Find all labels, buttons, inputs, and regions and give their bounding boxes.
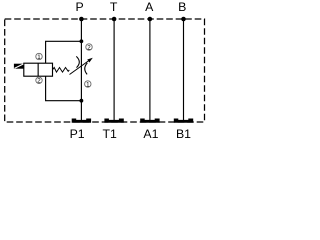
port P1 symbol bbox=[72, 119, 91, 123]
node loop bottom junction bbox=[80, 99, 84, 103]
svg-text:T: T bbox=[110, 0, 118, 14]
svg-text:2: 2 bbox=[37, 78, 41, 85]
pin 1 marker (valve top) bbox=[36, 53, 42, 61]
wire P line bbox=[80, 19, 82, 120]
throttle adjust arrow head bbox=[87, 58, 93, 63]
wire A line bbox=[149, 19, 151, 120]
svg-text:1: 1 bbox=[86, 81, 90, 88]
svg-text:T1: T1 bbox=[103, 127, 118, 138]
throttle adjust arrow shaft bbox=[70, 61, 89, 75]
throttle valve left arc bbox=[76, 56, 79, 67]
solenoid of valve V1 bbox=[14, 64, 24, 69]
port T1 symbol bbox=[104, 119, 123, 123]
svg-text:A1: A1 bbox=[143, 127, 158, 138]
svg-text:1: 1 bbox=[37, 54, 41, 61]
svg-text:2: 2 bbox=[87, 44, 91, 51]
node B bbox=[181, 17, 186, 22]
node A bbox=[148, 17, 153, 22]
pin 2 marker (valve bottom) bbox=[36, 77, 42, 84]
svg-text:P1: P1 bbox=[70, 127, 85, 138]
spring of valve V1 bbox=[53, 68, 70, 73]
throttle valve right arc bbox=[85, 63, 88, 75]
svg-text:P: P bbox=[75, 0, 83, 14]
port A1 symbol bbox=[140, 119, 159, 123]
valve V1 body (2-position) bbox=[24, 63, 53, 76]
node P bbox=[79, 17, 84, 22]
port B1 symbol bbox=[174, 119, 193, 123]
svg-text:B: B bbox=[178, 0, 186, 14]
svg-text:B1: B1 bbox=[176, 127, 191, 138]
node loop top junction bbox=[80, 39, 84, 43]
wire bypass loop bottom bbox=[46, 76, 82, 101]
pin 1 marker (throttle bottom) bbox=[85, 81, 91, 89]
node T bbox=[112, 17, 117, 22]
pin 2 marker (throttle top) bbox=[86, 44, 92, 52]
wire bypass loop top bbox=[46, 41, 82, 63]
wire T line bbox=[113, 19, 115, 120]
wire B line bbox=[183, 19, 185, 120]
svg-text:A: A bbox=[145, 0, 154, 14]
manifold block dashed outline bbox=[5, 19, 205, 122]
